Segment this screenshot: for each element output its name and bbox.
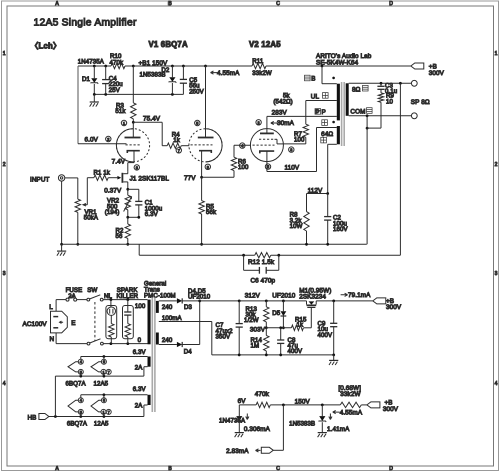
svg-text:UL: UL [311, 93, 320, 100]
resistor R7 [303, 124, 308, 137]
svg-text:〈Lch〉: 〈Lch〉 [31, 41, 61, 51]
svg-text:1M: 1M [251, 343, 260, 350]
svg-text:HB: HB [28, 414, 37, 421]
svg-text:INPUT: INPUT [30, 176, 50, 183]
svg-text:56: 56 [116, 233, 123, 240]
OPT core [341, 82, 343, 146]
heater 2 top wire [81, 394, 148, 396]
MOSFET M1 2SK3234 [309, 301, 315, 304]
wire COM to ground rail [366, 116, 368, 245]
pin 4 V2 [240, 143, 245, 148]
svg-text:2: 2 [107, 138, 109, 142]
ground at 1N5383B [318, 432, 327, 434]
svg-text:D: D [389, 1, 393, 7]
resistor R14 [265, 328, 267, 336]
svg-text:5: 5 [196, 122, 198, 126]
svg-text:7.4V: 7.4V [112, 158, 126, 165]
svg-text:3: 3 [290, 148, 292, 152]
zener 1N5383B bottom [321, 405, 323, 416]
pin 8 V1b [205, 164, 210, 169]
capacitor C1 [135, 200, 142, 202]
svg-text:J1 2SK117BL: J1 2SK117BL [130, 175, 170, 182]
capacitor C7 [238, 300, 241, 303]
V2 screen lead [275, 138, 278, 140]
terminal +B 300V bottom [367, 402, 380, 408]
svg-text:300V: 300V [383, 406, 399, 413]
svg-text:300V: 300V [386, 304, 402, 311]
svg-text:1: 1 [123, 122, 125, 126]
svg-text:4: 4 [80, 399, 82, 403]
wire pin3 to R7 [283, 143, 306, 145]
wire N bottom [55, 333, 57, 344]
V1a cathode [127, 151, 140, 153]
wire 77V to R6 [202, 176, 234, 178]
svg-text:6BQ7A: 6BQ7A [67, 420, 88, 427]
svg-text:0: 0 [138, 337, 142, 344]
wire R6 to V2 grid [234, 144, 251, 146]
svg-text:D4: D4 [184, 348, 193, 355]
svg-text:100: 100 [294, 137, 305, 144]
svg-text:240: 240 [162, 304, 173, 311]
svg-text:12A5 Single Amplifier: 12A5 Single Amplifier [34, 18, 137, 29]
resistor R4 [167, 143, 181, 148]
rail A to rail B step [138, 244, 140, 255]
svg-text:3: 3 [136, 166, 138, 170]
svg-text:2A: 2A [135, 364, 143, 371]
wire white tap down [328, 143, 337, 145]
resistor R8 [304, 212, 309, 231]
svg-text:P: P [322, 109, 326, 116]
svg-text:8Ω: 8Ω [352, 86, 361, 93]
resistor R5 [201, 177, 203, 200]
zener D1 1N4735A [93, 65, 96, 68]
svg-text:1N4735A: 1N4735A [78, 59, 105, 66]
V1b plate [204, 65, 207, 68]
svg-text:100: 100 [238, 164, 249, 171]
resistor R1 [94, 175, 108, 180]
svg-text:5: 5 [80, 410, 82, 414]
wire V1a grid 6.0V [78, 143, 127, 145]
svg-text:1: 1 [3, 51, 6, 57]
wire +B1 rail [78, 65, 111, 67]
OPT primary winding [337, 84, 340, 121]
V2 plate [260, 132, 274, 134]
pin 2 V2 [256, 120, 261, 125]
svg-text:7: 7 [108, 410, 110, 414]
heater 1 bottom wire [144, 366, 148, 368]
VR1 wiper wire [86, 178, 88, 205]
heater join vertical [54, 376, 56, 416]
PMC primary winding [148, 300, 151, 345]
capacitor C5 [182, 65, 185, 68]
svg-text:D1: D1 [82, 76, 91, 83]
heater 2 bottom wire [144, 404, 148, 406]
svg-text:110V: 110V [285, 164, 300, 171]
svg-text:6V: 6V [238, 398, 247, 405]
wire B tap [321, 65, 324, 68]
svg-text:1N5383B: 1N5383B [289, 421, 315, 428]
label gray tap [322, 120, 328, 126]
terminal 2.83mA [261, 447, 273, 453]
V1b cathode wire 77V [201, 151, 203, 178]
resistor R6 [233, 171, 235, 178]
svg-text:160V: 160V [333, 226, 348, 233]
svg-text:6.3V: 6.3V [133, 386, 147, 393]
JFET J1 2SK117BL [117, 176, 121, 180]
svg-text:4: 4 [80, 360, 82, 364]
tube V1b envelope [189, 129, 222, 162]
svg-text:SE-5K4W-K64: SE-5K4W-K64 [316, 59, 359, 66]
svg-text:400V: 400V [318, 332, 333, 339]
wire cathode 110V [266, 151, 268, 171]
svg-text:2A: 2A [135, 402, 143, 409]
capacitor C8 [279, 326, 282, 329]
svg-text:1N4735A: 1N4735A [219, 418, 246, 425]
wire D1-C4 ground bus [94, 93, 183, 95]
heater pins group2 12A5 [103, 395, 105, 398]
svg-text:V2 12A5: V2 12A5 [249, 40, 281, 49]
svg-text:7: 7 [108, 370, 110, 374]
wire HV center tap [159, 321, 212, 323]
svg-text:1k: 1k [173, 137, 180, 144]
wire SP+ to rail B [399, 83, 401, 255]
wire 8ohm tap [349, 82, 411, 84]
speaker terminal SP+ [411, 80, 417, 86]
svg-text:SW: SW [87, 287, 97, 294]
svg-text:303V: 303V [250, 326, 266, 333]
resistor R13 [265, 300, 268, 303]
ground at D1 [93, 94, 95, 101]
speaker terminal SP- [411, 113, 417, 119]
resistor R12 [255, 253, 271, 258]
heater winding 1 [148, 357, 151, 367]
capacitor C3 [380, 82, 383, 85]
label B tap [305, 75, 311, 81]
node 0.37V [126, 188, 129, 191]
svg-text:50kA: 50kA [84, 215, 99, 222]
svg-text:400V: 400V [288, 348, 303, 355]
svg-text:350V: 350V [216, 334, 231, 341]
svg-text:470k: 470k [110, 60, 124, 67]
svg-text:1k: 1k [297, 322, 304, 329]
svg-text:51k: 51k [115, 108, 126, 115]
svg-text:V1 6BQ7A: V1 6BQ7A [149, 40, 188, 49]
V1b grid [191, 144, 213, 146]
wire L [55, 300, 57, 312]
zener D2 1N5383B [171, 65, 174, 68]
wire input to VR1 [65, 177, 78, 179]
PMC core [151, 298, 153, 413]
svg-text:1: 1 [102, 370, 104, 374]
capacitor C2 [327, 194, 329, 217]
trimmer VR2 [127, 189, 129, 195]
wire 312V rail [200, 300, 307, 302]
svg-text:4: 4 [3, 381, 6, 387]
ground at C9 [333, 355, 335, 360]
fuse [66, 298, 69, 301]
V1a grid [126, 144, 141, 146]
heater pins group1 6BQ7A [80, 357, 82, 360]
resistor R2 [127, 217, 129, 224]
spark killer [123, 306, 134, 339]
svg-text:4.55mA: 4.55mA [217, 70, 240, 77]
svg-text:77V: 77V [184, 175, 196, 182]
svg-text:D3: D3 [184, 304, 193, 311]
svg-text:L: L [49, 304, 53, 311]
svg-text:6.3V: 6.3V [145, 211, 159, 218]
capacitor C4 [104, 65, 107, 68]
diode D5 [282, 300, 285, 303]
wire HV bottom + diode D4 [159, 344, 177, 346]
resistor R11 [252, 63, 266, 68]
svg-text:1N5383B: 1N5383B [140, 71, 166, 78]
svg-text:N: N [50, 336, 55, 343]
heater 1 top wire [81, 356, 148, 358]
svg-text:C6 470p: C6 470p [251, 277, 276, 284]
capacitor C6 [243, 255, 245, 270]
svg-text:2A: 2A [68, 293, 76, 300]
svg-text:7: 7 [178, 149, 180, 153]
wire 150V [270, 404, 340, 406]
heater pins group2 6BQ7A [80, 395, 82, 398]
svg-text:12A5: 12A5 [94, 380, 109, 387]
pin 3 V2 [289, 147, 294, 152]
svg-text:6: 6 [103, 399, 105, 403]
svg-text:30mA: 30mA [277, 120, 295, 127]
svg-text:75.4V: 75.4V [143, 115, 161, 122]
heater winding 2 [148, 395, 151, 405]
svg-text:0.37V: 0.37V [104, 187, 122, 194]
svg-text:2SK3234: 2SK3234 [299, 293, 326, 300]
wire 6V node [239, 404, 256, 406]
pin 2 V1a [106, 136, 111, 141]
wire HV top + diode D3 [159, 300, 177, 302]
svg-text:2: 2 [495, 162, 498, 168]
OPT secondary winding [346, 83, 349, 116]
svg-text:COM: COM [350, 108, 365, 115]
ground at input rail [61, 244, 63, 251]
svg-text:+B1 150V: +B1 150V [139, 60, 169, 67]
svg-text:6.3V: 6.3V [133, 349, 147, 356]
svg-text:8: 8 [207, 165, 209, 169]
resistor R15 [291, 325, 303, 330]
svg-text:R12 1.5k: R12 1.5k [248, 259, 275, 266]
svg-text:4.55mA: 4.55mA [340, 409, 363, 416]
wire 2.83mA to 150V node [273, 449, 283, 451]
resistor R9 [378, 93, 383, 102]
svg-text:D: D [389, 466, 393, 472]
svg-text:10: 10 [386, 98, 393, 105]
svg-text:1: 1 [495, 51, 498, 57]
pin 5 V1b [195, 120, 200, 125]
svg-text:(542Ω): (542Ω) [273, 98, 292, 105]
svg-text:2: 2 [3, 162, 6, 168]
wire UL tap [306, 100, 337, 102]
svg-text:E: E [71, 320, 75, 327]
V2 grids [259, 138, 275, 140]
svg-text:6.0V: 6.0V [85, 137, 99, 144]
switch gang link [94, 302, 96, 341]
switch SW bottom [87, 342, 90, 345]
svg-text:3: 3 [3, 271, 6, 277]
pin 3 V1a [134, 165, 139, 170]
ground rail B [139, 254, 255, 256]
svg-text:UF2010: UF2010 [272, 292, 296, 299]
wire rectifier join [199, 301, 201, 345]
svg-text:470k: 470k [255, 391, 270, 398]
svg-text:1.41mA: 1.41mA [327, 426, 350, 433]
svg-text:B: B [311, 76, 315, 83]
svg-text:4: 4 [241, 144, 243, 148]
pin 7 V1b [176, 148, 181, 153]
neon lamp NL [106, 306, 117, 339]
svg-text:4: 4 [495, 381, 498, 387]
svg-text:33k2W: 33k2W [340, 391, 360, 398]
tube V1a envelope [116, 129, 149, 162]
wire 112V node [307, 193, 328, 195]
pin 5 V2 [265, 164, 270, 169]
INPUT terminal [58, 175, 64, 181]
svg-text:240: 240 [162, 337, 173, 344]
svg-text:56k: 56k [206, 209, 217, 216]
wire fuse to SW [77, 299, 87, 301]
wire 6V vertical [77, 66, 79, 144]
svg-text:6BQ7A: 6BQ7A [66, 380, 87, 387]
wire VR2-C1 join [128, 216, 139, 218]
svg-text:2.83mA: 2.83mA [226, 448, 249, 455]
svg-text:79.1mA: 79.1mA [348, 292, 371, 299]
zener 1N4735A bottom [236, 416, 242, 421]
wire R9 return [367, 127, 381, 129]
V1a plate [132, 122, 134, 137]
svg-text:33k2W: 33k2W [252, 70, 272, 77]
svg-text:C: C [276, 466, 280, 472]
wire COM tap [349, 115, 411, 117]
svg-text:6: 6 [103, 360, 105, 364]
svg-text:KILLER: KILLER [117, 293, 139, 300]
svg-text:D5: D5 [272, 310, 281, 317]
wire V2 plate 283V [267, 115, 337, 117]
OPT tap marker dots [332, 77, 335, 80]
svg-text:NL: NL [104, 293, 113, 300]
resistor R3 [132, 65, 135, 68]
svg-text:100: 100 [135, 303, 146, 310]
svg-text:1/2W: 1/2W [244, 317, 259, 324]
svg-text:283V: 283V [272, 109, 288, 116]
switch SW top [87, 298, 90, 301]
resistor R10 [111, 63, 125, 68]
tube V2 envelope [250, 129, 283, 162]
terminal HB [39, 414, 49, 420]
svg-text:312V: 312V [245, 292, 261, 299]
svg-text:(194): (194) [105, 209, 120, 216]
AC inlet [51, 311, 68, 333]
svg-text:C: C [276, 1, 280, 7]
V2 cathode [260, 151, 274, 153]
wire to C1 [128, 188, 139, 190]
capacitor C9 [332, 300, 335, 303]
svg-text:150V: 150V [295, 398, 311, 405]
ground rail A [62, 243, 367, 245]
svg-text:1: 1 [102, 410, 104, 414]
ground at 1N4735A [235, 432, 244, 434]
V1b cathode [199, 151, 211, 153]
pin 1 V1a [121, 120, 126, 125]
wire SW2 to transformer 0 tap [103, 343, 147, 345]
svg-text:10W: 10W [290, 223, 303, 230]
svg-text:R11: R11 [252, 58, 264, 65]
svg-text:0.306mA: 0.306mA [244, 426, 271, 433]
resistor 33k2W bottom [340, 402, 361, 407]
heater pins group1 12A5 [103, 357, 105, 360]
svg-text:250V: 250V [189, 88, 204, 95]
svg-text:300V: 300V [429, 70, 445, 77]
svg-text:PMC-100M: PMC-100M [144, 292, 176, 299]
svg-text:SP 8Ω: SP 8Ω [411, 99, 430, 106]
resistor 470k [256, 402, 270, 407]
svg-text:5: 5 [80, 370, 82, 374]
svg-text:25V: 25V [109, 87, 121, 94]
svg-text:2: 2 [258, 121, 260, 125]
terminal +B 300V middle [373, 298, 386, 304]
PSU ground rail [212, 354, 334, 356]
node 75.4V wire [132, 121, 135, 124]
wire SW to transformer 100 tap [103, 299, 147, 301]
svg-text:AC100V: AC100V [23, 321, 48, 328]
V1a cathode wire 7.4V [133, 151, 135, 163]
PMC HV secondary winding [156, 301, 159, 313]
node 303V wire [266, 327, 291, 329]
wire gray tap to cathode [317, 127, 337, 129]
terminal +B 300V top [411, 63, 424, 69]
input sleeve ground wire [61, 181, 63, 244]
svg-text:3: 3 [495, 271, 498, 277]
svg-text:R1 1k: R1 1k [94, 169, 111, 176]
svg-text:12A5: 12A5 [94, 420, 109, 427]
potentiometer VR1 [75, 199, 80, 212]
